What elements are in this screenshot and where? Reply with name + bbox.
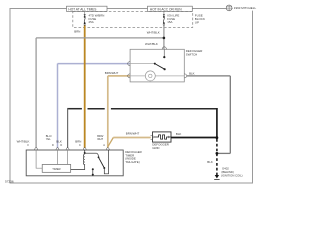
svg-text:HOT IN ACC OR RUN: HOT IN ACC OR RUN	[150, 7, 182, 11]
svg-text:C: C	[79, 144, 81, 147]
svg-text:YEL: YEL	[46, 137, 51, 141]
svg-text:BLK: BLK	[207, 160, 213, 164]
svg-text:BLK: BLK	[56, 139, 62, 143]
svg-text:BRN: BRN	[74, 29, 80, 33]
svg-text:WHT/BLK: WHT/BLK	[147, 31, 160, 35]
svg-text:D: D	[52, 144, 54, 147]
svg-text:WHT/BLK: WHT/BLK	[17, 140, 30, 144]
svg-text:BRN/: BRN/	[97, 134, 103, 138]
svg-text:GRID: GRID	[152, 146, 159, 150]
svg-text:BRN: BRN	[75, 139, 81, 143]
svg-text:D: D	[60, 144, 62, 147]
svg-text:BRN/WHT: BRN/WHT	[126, 132, 140, 136]
svg-text:WHT/BLK: WHT/BLK	[145, 42, 158, 46]
svg-text:BLK: BLK	[176, 132, 182, 136]
svg-text:25A: 25A	[89, 20, 94, 24]
svg-text:BLK: BLK	[189, 71, 195, 75]
svg-text:WHT: WHT	[97, 137, 103, 141]
svg-text:TIMER: TIMER	[52, 167, 60, 171]
svg-text:BRN/WHT: BRN/WHT	[105, 71, 119, 75]
svg-text:15A: 15A	[167, 20, 172, 24]
svg-text:(IGNITION COIL): (IGNITION COIL)	[221, 174, 243, 178]
svg-text:1993 MITCHELL: 1993 MITCHELL	[234, 6, 257, 10]
svg-text:57236: 57236	[5, 179, 14, 183]
svg-text:HOT AT ALL TIMES: HOT AT ALL TIMES	[68, 7, 96, 11]
svg-text:TAILGATE): TAILGATE)	[125, 160, 140, 164]
svg-text:SWITCH: SWITCH	[186, 52, 197, 56]
svg-text:UP: UP	[195, 21, 199, 25]
